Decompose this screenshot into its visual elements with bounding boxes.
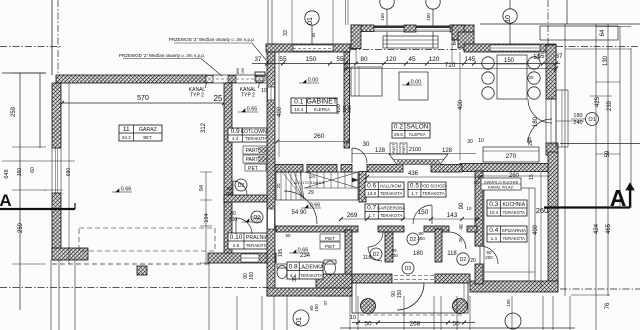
svg-text:76: 76 bbox=[605, 302, 611, 309]
svg-text:30: 30 bbox=[467, 139, 473, 145]
svg-text:55: 55 bbox=[538, 54, 545, 60]
svg-text:TYP 2: TYP 2 bbox=[190, 93, 204, 99]
svg-text:160: 160 bbox=[426, 13, 431, 21]
svg-text:0.66: 0.66 bbox=[251, 217, 262, 223]
svg-text:10.4: 10.4 bbox=[294, 107, 303, 112]
svg-text:PART: PART bbox=[392, 143, 396, 153]
svg-text:195: 195 bbox=[278, 249, 284, 258]
svg-text:200: 200 bbox=[417, 236, 425, 241]
svg-text:200: 200 bbox=[347, 105, 352, 113]
svg-text:30: 30 bbox=[363, 142, 370, 148]
svg-text:1.7: 1.7 bbox=[411, 191, 418, 196]
svg-text:425: 425 bbox=[595, 96, 601, 107]
svg-text:10: 10 bbox=[350, 315, 356, 321]
svg-text:PART: PART bbox=[402, 143, 406, 153]
svg-text:KLEPKA: KLEPKA bbox=[409, 132, 426, 137]
svg-text:150: 150 bbox=[306, 56, 317, 63]
svg-text:PIET: PIET bbox=[325, 236, 335, 241]
svg-text:0.3: 0.3 bbox=[489, 201, 498, 208]
svg-text:0.9: 0.9 bbox=[231, 128, 240, 135]
svg-text:400: 400 bbox=[458, 99, 464, 110]
svg-text:PART: PART bbox=[246, 148, 259, 154]
svg-text:O1: O1 bbox=[588, 117, 595, 123]
svg-text:KUCHNIA: KUCHNIA bbox=[503, 202, 526, 208]
svg-text:TYP 2: TYP 2 bbox=[241, 93, 255, 99]
svg-text:SALON: SALON bbox=[406, 124, 428, 131]
svg-text:270: 270 bbox=[506, 153, 517, 160]
svg-text:34.2: 34.2 bbox=[122, 135, 131, 140]
svg-text:0.65: 0.65 bbox=[247, 107, 258, 113]
svg-text:180: 180 bbox=[413, 251, 424, 257]
svg-text:436: 436 bbox=[408, 171, 419, 177]
svg-text:200: 200 bbox=[229, 217, 238, 223]
svg-text:4.4: 4.4 bbox=[232, 136, 239, 141]
svg-text:D3: D3 bbox=[405, 266, 412, 272]
svg-text:424: 424 bbox=[594, 223, 600, 234]
svg-text:TERAKOTA: TERAKOTA bbox=[246, 243, 268, 248]
svg-text:234: 234 bbox=[300, 253, 311, 259]
svg-text:118: 118 bbox=[447, 251, 457, 257]
svg-text:710: 710 bbox=[445, 62, 456, 69]
svg-text:240: 240 bbox=[573, 120, 582, 126]
svg-text:PRZEWOD 'Z' WeZlan otwarty o.: PRZEWOD 'Z' WeZlan otwarty o. 3m n.p.p. bbox=[169, 37, 255, 42]
svg-text:128: 128 bbox=[442, 148, 453, 154]
svg-text:59: 59 bbox=[605, 150, 611, 157]
svg-text:TERAKOTA: TERAKOTA bbox=[422, 191, 444, 196]
svg-text:0.66: 0.66 bbox=[121, 187, 132, 193]
svg-text:195: 195 bbox=[506, 299, 511, 307]
svg-text:37: 37 bbox=[556, 54, 563, 60]
svg-text:55: 55 bbox=[279, 56, 287, 63]
svg-text:20: 20 bbox=[276, 183, 281, 189]
svg-text:160: 160 bbox=[380, 13, 385, 21]
svg-text:KANAL WLAZ.: KANAL WLAZ. bbox=[488, 185, 514, 190]
svg-text:11: 11 bbox=[123, 126, 130, 133]
svg-text:145: 145 bbox=[465, 56, 476, 63]
svg-text:01: 01 bbox=[296, 317, 303, 325]
svg-text:0.8: 0.8 bbox=[289, 264, 298, 271]
svg-text:64: 64 bbox=[600, 29, 606, 36]
svg-text:0.00: 0.00 bbox=[308, 78, 319, 84]
svg-text:PRALNIA: PRALNIA bbox=[246, 235, 269, 241]
svg-text:35: 35 bbox=[292, 276, 298, 282]
svg-text:GARDEROBA: GARDEROBA bbox=[377, 206, 405, 211]
svg-text:50: 50 bbox=[452, 321, 460, 328]
svg-text:200: 200 bbox=[390, 253, 398, 258]
svg-text:312: 312 bbox=[201, 122, 207, 133]
svg-text:150: 150 bbox=[17, 168, 23, 177]
svg-text:0.1: 0.1 bbox=[294, 99, 303, 106]
svg-text:GABINET: GABINET bbox=[306, 99, 337, 106]
svg-text:01: 01 bbox=[307, 17, 314, 25]
svg-text:259: 259 bbox=[11, 106, 17, 117]
svg-text:10: 10 bbox=[261, 88, 267, 94]
svg-text:32: 32 bbox=[283, 30, 289, 36]
svg-text:37: 37 bbox=[323, 300, 328, 306]
svg-text:POD SCHOD.: POD SCHOD. bbox=[420, 184, 447, 189]
svg-text:80: 80 bbox=[360, 56, 368, 63]
svg-text:TERAKOTA: TERAKOTA bbox=[503, 236, 525, 241]
svg-text:GARAZ: GARAZ bbox=[139, 127, 157, 133]
svg-text:D2: D2 bbox=[410, 237, 417, 243]
svg-text:269: 269 bbox=[347, 212, 358, 219]
svg-text:570: 570 bbox=[137, 95, 149, 102]
svg-text:94: 94 bbox=[199, 185, 205, 191]
svg-text:400: 400 bbox=[277, 106, 283, 117]
svg-text:SPIZARNIA: SPIZARNIA bbox=[502, 228, 527, 233]
svg-text:86: 86 bbox=[311, 32, 316, 37]
svg-text:60: 60 bbox=[30, 167, 36, 173]
svg-text:BET.: BET. bbox=[143, 135, 152, 140]
svg-text:10: 10 bbox=[505, 15, 512, 23]
svg-text:1.4: 1.4 bbox=[491, 236, 498, 241]
svg-text:KLEPKA: KLEPKA bbox=[314, 107, 331, 112]
svg-text:150: 150 bbox=[504, 58, 515, 64]
svg-text:TERAKOTA: TERAKOTA bbox=[245, 136, 267, 141]
svg-text:D2: D2 bbox=[373, 252, 380, 258]
svg-text:130: 130 bbox=[603, 55, 609, 66]
svg-text:200: 200 bbox=[485, 255, 493, 260]
svg-text:PIET: PIET bbox=[325, 244, 335, 249]
svg-text:10.4: 10.4 bbox=[489, 210, 498, 215]
svg-text:TERAKOTA: TERAKOTA bbox=[380, 191, 402, 196]
svg-text:10: 10 bbox=[478, 138, 484, 144]
svg-text:120: 120 bbox=[386, 56, 397, 63]
svg-text:LAZIENKA: LAZIENKA bbox=[299, 265, 325, 271]
svg-text:116: 116 bbox=[363, 255, 372, 261]
svg-text:0.6: 0.6 bbox=[367, 183, 376, 190]
svg-text:200: 200 bbox=[225, 191, 233, 196]
svg-text:TERAKOTA: TERAKOTA bbox=[380, 213, 402, 218]
svg-text:20: 20 bbox=[528, 75, 534, 80]
svg-text:50: 50 bbox=[364, 321, 372, 328]
svg-text:465: 465 bbox=[606, 223, 612, 234]
svg-text:0.10: 0.10 bbox=[230, 234, 243, 241]
svg-text:2100: 2100 bbox=[409, 147, 421, 153]
svg-text:50: 50 bbox=[285, 233, 291, 238]
svg-text:120: 120 bbox=[429, 56, 440, 63]
svg-text:0.2: 0.2 bbox=[394, 124, 403, 131]
svg-text:890: 890 bbox=[236, 68, 240, 74]
svg-text:10: 10 bbox=[473, 180, 479, 185]
svg-text:PET: PET bbox=[248, 166, 258, 172]
svg-text:45: 45 bbox=[408, 56, 416, 63]
svg-text:46: 46 bbox=[459, 224, 465, 230]
svg-text:D2: D2 bbox=[238, 183, 245, 189]
svg-text:150: 150 bbox=[249, 272, 255, 281]
svg-text:TERAKOTA: TERAKOTA bbox=[300, 273, 322, 278]
svg-text:25: 25 bbox=[214, 94, 223, 103]
svg-text:28.6: 28.6 bbox=[394, 132, 403, 137]
svg-text:0.7: 0.7 bbox=[367, 205, 376, 212]
svg-text:54 90: 54 90 bbox=[291, 210, 307, 216]
svg-text:HALL/KOM.: HALL/KOM. bbox=[380, 184, 402, 189]
svg-text:190: 190 bbox=[241, 68, 245, 74]
svg-text:400: 400 bbox=[533, 224, 539, 235]
svg-text:2.8: 2.8 bbox=[233, 243, 240, 248]
svg-text:TERAKOTA: TERAKOTA bbox=[503, 210, 525, 215]
svg-text:194: 194 bbox=[204, 213, 210, 222]
svg-text:29: 29 bbox=[308, 190, 314, 196]
svg-text:150: 150 bbox=[397, 290, 403, 299]
svg-text:55: 55 bbox=[336, 56, 344, 63]
svg-text:150: 150 bbox=[314, 304, 319, 312]
svg-text:0.4: 0.4 bbox=[489, 227, 498, 234]
svg-text:20: 20 bbox=[470, 258, 476, 264]
svg-text:13.8: 13.8 bbox=[367, 191, 376, 196]
svg-text:st.Z. 170 f12x16.5: st.Z. 170 f12x16.5 bbox=[294, 181, 324, 185]
svg-text:64: 64 bbox=[452, 38, 458, 45]
svg-text:320: 320 bbox=[309, 174, 316, 179]
svg-text:10: 10 bbox=[466, 206, 472, 211]
svg-text:260: 260 bbox=[314, 133, 325, 140]
svg-text:D2: D2 bbox=[460, 257, 467, 263]
svg-text:268: 268 bbox=[410, 321, 421, 328]
svg-text:25: 25 bbox=[528, 140, 534, 146]
svg-text:1.7: 1.7 bbox=[368, 213, 375, 218]
svg-text:15: 15 bbox=[529, 174, 535, 180]
svg-text:PART: PART bbox=[246, 157, 259, 163]
svg-text:37: 37 bbox=[255, 57, 262, 63]
svg-text:239: 239 bbox=[607, 100, 613, 111]
svg-text:180: 180 bbox=[573, 113, 582, 119]
svg-text:PRZEWOD 'Z' WeZlan otwarty o.: PRZEWOD 'Z' WeZlan otwarty o. 3m n.p.p. bbox=[119, 53, 205, 58]
svg-text:259: 259 bbox=[18, 222, 24, 233]
svg-text:648: 648 bbox=[4, 169, 10, 178]
svg-text:90: 90 bbox=[459, 202, 465, 209]
svg-text:128: 128 bbox=[375, 148, 386, 154]
svg-text:A: A bbox=[0, 191, 12, 210]
svg-text:0.5: 0.5 bbox=[410, 183, 419, 190]
svg-text:143: 143 bbox=[447, 212, 458, 219]
svg-text:0.00: 0.00 bbox=[411, 80, 422, 86]
